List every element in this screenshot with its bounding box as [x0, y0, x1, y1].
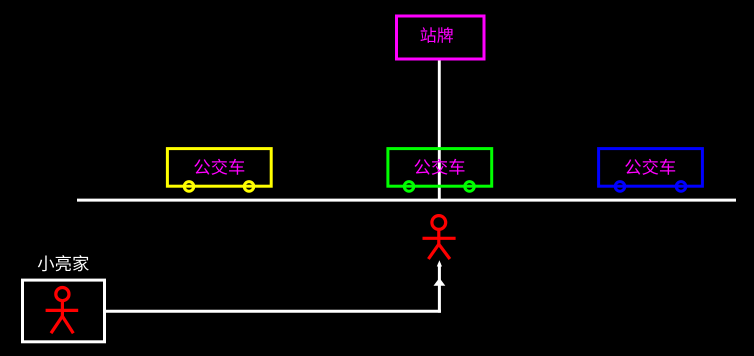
person at home head [56, 288, 69, 301]
home box [23, 280, 105, 342]
blue bus left wheel [615, 182, 625, 192]
person waiting arms [423, 237, 456, 240]
yellow bus body [167, 149, 271, 187]
home label 小亮家 [38, 255, 89, 271]
green bus left wheel [404, 182, 414, 192]
sign pole wire [438, 58, 441, 200]
blue bus right wheel [676, 182, 686, 192]
blue bus body [599, 149, 703, 187]
person at home arms [46, 309, 79, 312]
person at home left leg [51, 316, 62, 333]
route wire vertical to person [438, 264, 441, 313]
yellow bus left wheel [184, 182, 194, 192]
person waiting head [432, 216, 446, 230]
route wire horizontal from home [106, 310, 441, 313]
person at home right leg [62, 316, 73, 333]
green bus body [388, 149, 492, 187]
blue bus label 公交车 [625, 159, 675, 175]
person at home body [61, 301, 64, 318]
sign label 站牌 [420, 27, 452, 43]
person waiting right leg [439, 244, 450, 259]
person waiting body [437, 229, 440, 245]
route arrowhead [434, 278, 446, 286]
person waiting at stop [423, 216, 456, 259]
green bus label 公交车 [414, 159, 464, 175]
person at home [46, 288, 79, 334]
yellow bus label 公交车 [194, 159, 244, 175]
green bus right wheel [465, 182, 475, 192]
person waiting left leg [428, 244, 438, 259]
bus stop sign box 站牌 [397, 16, 485, 59]
road line [77, 199, 736, 202]
yellow bus right wheel [244, 182, 254, 192]
route wire pointed tip [437, 260, 442, 266]
